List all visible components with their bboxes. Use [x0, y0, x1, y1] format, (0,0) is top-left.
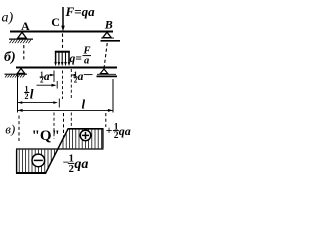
- svg-text:F=qa: F=qa: [65, 4, 96, 19]
- Q diagonal: [45, 128, 68, 174]
- label 1/2 a (right): [73, 70, 83, 84]
- svg-text:l: l: [30, 87, 34, 102]
- dashed extension center: [62, 71, 64, 100]
- support A pin triangle: [18, 32, 27, 38]
- positive area right edge: [102, 128, 104, 148]
- dashed drop line right (row v): [105, 113, 107, 127]
- minus circle: [32, 154, 45, 167]
- label -1/2 qa: [63, 154, 89, 175]
- Q axis: [16, 148, 104, 150]
- right support ground line (row b): [97, 75, 118, 77]
- dim line l: [18, 109, 114, 111]
- support A hatching: [10, 40, 31, 44]
- svg-text:2: 2: [25, 92, 29, 101]
- dashed line under B: [104, 43, 107, 67]
- dashed drop line load-left (row v): [53, 113, 55, 140]
- svg-text:qa: qa: [74, 157, 88, 172]
- label 1/2 a (left): [40, 70, 50, 84]
- load arrowheads: [54, 62, 70, 66]
- svg-text:q=: q=: [70, 53, 83, 65]
- negative area bottom edge: [16, 172, 46, 174]
- svg-text:2: 2: [69, 164, 74, 175]
- support B base line: [101, 37, 114, 39]
- svg-text:C: C: [51, 15, 60, 29]
- svg-text:a: a: [84, 56, 89, 67]
- right support base line (row b): [97, 73, 116, 75]
- dim line half-a: [49, 74, 54, 76]
- center tick lower: [58, 99, 60, 108]
- svg-text:в): в): [5, 122, 15, 137]
- extension tick at load left: [53, 71, 55, 83]
- left extension line: [17, 74, 19, 113]
- positive area top edge: [68, 128, 104, 130]
- left support hatching (row b): [5, 75, 25, 78]
- support B roller triangle: [103, 32, 112, 38]
- svg-text:б): б): [4, 50, 16, 65]
- right support roller (row b): [100, 69, 108, 74]
- svg-text:+: +: [106, 125, 113, 137]
- dashed line under A: [23, 45, 25, 61]
- beam AB (row a): [10, 31, 113, 33]
- svg-text:B: B: [104, 18, 113, 32]
- dashed extension load right: [70, 69, 72, 99]
- svg-text:qa: qa: [119, 124, 131, 138]
- dashed drop line center (row v): [63, 113, 65, 139]
- left support pin triangle (row b): [17, 69, 24, 74]
- svg-text:"Q": "Q": [32, 128, 60, 144]
- distributed load q box: [55, 51, 70, 63]
- force F arrow: [62, 7, 64, 28]
- support A ground line: [9, 38, 33, 40]
- support B ground line: [101, 40, 121, 42]
- svg-text:A: A: [21, 19, 30, 33]
- dashed line under C to load: [62, 34, 64, 51]
- label +1/2 qa: [106, 122, 131, 141]
- dim line half-l lower: [18, 102, 57, 104]
- svg-text:a: a: [44, 71, 50, 83]
- label 1/2 l: [24, 85, 34, 102]
- svg-text:a: a: [78, 71, 84, 83]
- dim line half-l upper: [37, 84, 53, 86]
- plus circle: [80, 130, 91, 141]
- svg-text:l: l: [82, 97, 86, 112]
- negative area left edge: [16, 150, 18, 174]
- svg-text:а): а): [2, 11, 14, 26]
- left support ground line (row b): [5, 73, 28, 75]
- right extension line: [112, 79, 114, 113]
- beam (row b): [16, 66, 117, 68]
- dashed drop line left (row v): [18, 116, 20, 142]
- dashed drop line load-right (row v): [70, 113, 72, 128]
- center tick: [56, 81, 58, 89]
